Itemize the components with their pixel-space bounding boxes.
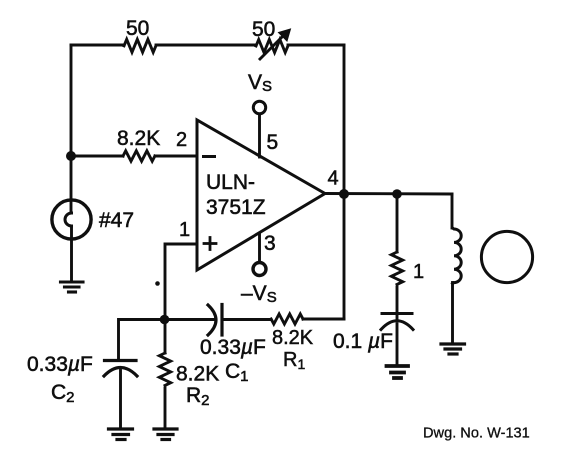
svg-text:3751Z: 3751Z [206,196,266,219]
pin 4 output wire [325,192,452,195]
svg-text:Dwg. No. W-131: Dwg. No. W-131 [423,426,530,442]
svg-text:3: 3 [264,232,276,255]
wire node B to C2 branch [119,320,165,361]
node A (junction lamp / input resistor) [66,151,76,161]
wire node A to 8.2K input resistor [71,155,123,158]
svg-text:R1: R1 [283,349,305,372]
svg-text:1: 1 [413,261,424,283]
ground (C2) [109,429,133,440]
resistor 8.2K (input to pin 2) [123,151,155,161]
capacitor 0.1uF top plate [382,312,412,315]
svg-text:–VS: –VS [241,282,277,306]
wire top rail right segment [288,44,344,47]
wire top-left vertical from top rail down to input node [70,45,73,156]
wire C1 to bottom node [165,318,217,321]
svg-text:2: 2 [176,129,187,151]
wire output node down to bottom rail [343,194,346,319]
svg-text:C1: C1 [225,360,249,385]
op-amp minus sign (pin 2 inverting input) [204,155,215,158]
op-amp U1 ULN-3751Z triangle [197,120,325,270]
potentiometer arrow [260,29,291,59]
ground (voice coil) [441,344,465,354]
resistor 50 (fixed, top rail) [124,39,156,52]
ground (lamp) [61,282,84,292]
resistor R2 8.2K (vertical) [159,353,170,385]
wire pin 1 feedback: node B up and over to op-amp pin 1 [165,244,197,320]
pin 5 terminal circle [253,101,265,113]
capacitor C2 top plate [105,359,137,362]
wire 0.1uF cap to ground [396,324,399,365]
wire voice coil to ground [451,283,454,344]
svg-text:4: 4 [328,168,339,190]
wire R1 to C1 [224,318,272,321]
wire feedback vertical (pot to output node) [343,45,346,194]
resistor 1 (vertical) [391,252,402,284]
svg-text:0.33µF: 0.33µF [200,336,266,359]
wire resistor to op-amp pin 2 [155,155,197,158]
lamp #47 wire from node A down [70,156,73,213]
node output (feedback junction) [339,189,349,199]
svg-text:C2: C2 [51,381,75,406]
svg-text:0.1 µF: 0.1 µF [333,330,393,353]
capacitor C2 curved plate [104,368,137,377]
svg-text:50: 50 [252,18,275,41]
wire load branch down to 1-ohm resistor [396,194,399,252]
pin 3 stub (-V supply) [258,234,261,262]
resistor R1 8.2K [271,314,303,324]
svg-text:ULN-: ULN- [206,171,255,194]
svg-text:0.33µF: 0.33µF [27,353,93,376]
svg-text:#47: #47 [99,209,134,232]
wire output rail corner down to voice coil [451,194,454,228]
svg-text:VS: VS [248,71,272,95]
wire top rail middle segment [156,44,256,47]
wire bottom rail from output vertical to R1 [303,318,344,321]
stray mark dot [155,281,160,286]
capacitor C1 straight plate [220,305,223,336]
op-amp plus sign (pin 1 non-inverting input) [204,238,216,250]
svg-text:1: 1 [179,219,190,241]
svg-text:8.2K: 8.2K [176,363,219,386]
wire C2 to ground [119,371,122,428]
inductor voice coil [453,228,462,284]
svg-text:5: 5 [267,131,279,154]
ground (0.1uF) [387,366,409,378]
svg-text:8.2K: 8.2K [272,327,314,349]
node B (bottom junction C2 / R2 / pin 1) [160,315,170,325]
wire resistor 1 to 0.1uF cap [396,287,399,321]
speaker circle [481,231,532,282]
ground (R2) [154,429,177,440]
svg-text:8.2K: 8.2K [117,127,160,150]
lamp #47 filament curl [65,213,72,226]
wire R2 to ground [164,388,167,427]
wire node B down to R2 [164,320,167,354]
wire top rail left segment [71,44,124,47]
node load branch junction [392,189,402,199]
svg-text:R2: R2 [186,384,210,409]
pin 5 stub (V supply) [258,114,261,157]
svg-text:50: 50 [126,17,149,40]
lamp #47 circle [52,200,91,239]
lamp #47 bottom wire to ground [70,226,73,281]
pin 3 terminal circle [253,263,266,276]
potentiometer 50 (variable resistor zigzag) [256,40,288,53]
capacitor 0.1uF curved plate [381,321,413,330]
capacitor C1 curved plate [208,305,216,335]
